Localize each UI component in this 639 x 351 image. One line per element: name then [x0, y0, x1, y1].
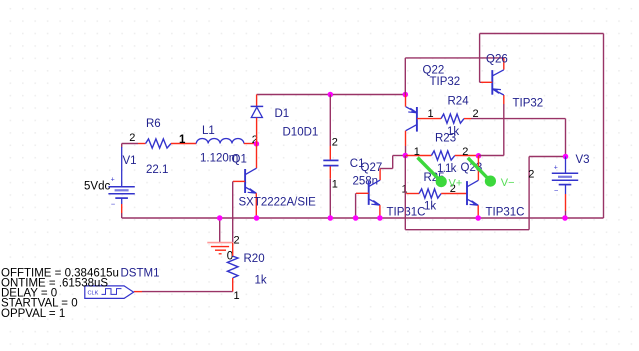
junction dot C1 top	[328, 92, 334, 98]
pin 1 of R24	[428, 108, 434, 120]
label 5Vdc	[84, 181, 110, 193]
transistor Q26 PNP	[492, 58, 504, 95]
resistor R23	[406, 151, 478, 160]
svg-text:Q1: Q1	[232, 154, 247, 166]
svg-text:1: 1	[402, 184, 408, 196]
svg-text:R23: R23	[435, 133, 456, 145]
pin 1 label (bold) between R6 and L1	[179, 134, 186, 146]
ground symbol 0	[207, 243, 233, 254]
svg-text:TIP32: TIP32	[430, 76, 461, 88]
label Q23	[461, 162, 483, 174]
pin 2 of R25	[450, 183, 456, 195]
label D1	[275, 108, 290, 120]
svg-text:Q27: Q27	[361, 162, 383, 174]
label DSTM1	[121, 268, 160, 280]
voltage source V3	[552, 157, 578, 219]
label V+	[449, 178, 463, 190]
junction dot C1 bottom	[328, 215, 334, 221]
label R6	[146, 118, 161, 130]
digital stimulus DSTM1	[85, 286, 134, 299]
svg-text:L1: L1	[202, 125, 215, 137]
junction dot Q27 emitter	[377, 215, 383, 221]
inductor L1	[196, 139, 254, 144]
wire Q22 node down	[405, 58, 504, 95]
label SXT2222A/SIE	[239, 197, 317, 209]
resistor R6	[146, 139, 197, 148]
label Q27	[361, 162, 383, 174]
svg-text:R20: R20	[244, 253, 265, 265]
svg-text:5Vdc: 5Vdc	[84, 181, 110, 193]
wire Q27 collector to node	[380, 156, 405, 169]
marker V- probe	[468, 158, 496, 187]
value 258n	[353, 176, 379, 188]
pin 2 of C1	[332, 137, 338, 149]
wire node to Q26 emitter	[479, 95, 504, 156]
svg-text:OPPVAL = 1: OPPVAL = 1	[1, 308, 65, 320]
svg-text:22.1: 22.1	[146, 164, 168, 176]
label Q22	[423, 65, 445, 77]
marker V+ probe	[418, 158, 447, 188]
wire top rail	[257, 94, 406, 96]
label V-	[501, 177, 515, 189]
capacitor C1	[323, 95, 338, 219]
label V1	[123, 155, 137, 167]
wire left loop from V1 to R6	[122, 144, 146, 148]
svg-text:Q22: Q22	[423, 65, 445, 77]
pin 2 of R24	[473, 108, 479, 120]
svg-text:1: 1	[234, 290, 240, 302]
voltage source V1 5Vdc	[108, 147, 134, 218]
value 1k of R24	[447, 126, 459, 138]
junction dot Q23 emitter	[475, 215, 481, 221]
param text OPPVAL	[1, 308, 65, 320]
svg-text:V1: V1	[123, 155, 137, 167]
label D10D1	[283, 127, 319, 139]
value 22.1	[146, 164, 168, 176]
param text ONTIME	[1, 278, 108, 290]
wire top rect	[480, 34, 604, 219]
label TIP32 of Q26	[513, 98, 544, 110]
value 1.120m	[200, 153, 238, 165]
label Q1	[232, 154, 247, 166]
label Q26	[486, 54, 508, 66]
diode D1	[251, 95, 264, 144]
transistor Q22 PNP	[406, 95, 417, 156]
pin 2 of R20	[234, 235, 240, 247]
pin 1 of R25	[402, 184, 408, 196]
wire Q26 base to top rect	[480, 34, 493, 83]
label L1	[202, 125, 215, 137]
value 1k of R25	[424, 201, 436, 213]
svg-text:1: 1	[332, 179, 338, 191]
svg-text:V+: V+	[449, 178, 463, 190]
svg-text:1: 1	[428, 108, 434, 120]
wire DSTM1 to R20	[134, 291, 233, 293]
junction dot Q22 node	[403, 92, 409, 98]
svg-text:2: 2	[332, 137, 338, 149]
svg-text:2: 2	[129, 132, 135, 144]
label R23	[435, 133, 456, 145]
svg-text:V3: V3	[576, 154, 590, 166]
svg-text:V−: V−	[501, 177, 515, 189]
pin 2 of R6	[129, 132, 135, 144]
param text DELAY	[1, 287, 57, 299]
svg-text:DSTM1: DSTM1	[121, 268, 160, 280]
svg-text:TIP31C: TIP31C	[387, 207, 426, 219]
junction dot V3 bottom	[562, 215, 568, 221]
svg-text:+: +	[111, 177, 115, 184]
wire lower loop to V3	[405, 156, 565, 230]
svg-text:1k: 1k	[255, 275, 267, 287]
value 1k of R20	[255, 275, 267, 287]
svg-text:2: 2	[462, 146, 468, 158]
svg-text:TIP31C: TIP31C	[486, 207, 525, 219]
svg-text:D1: D1	[275, 108, 290, 120]
svg-text:2: 2	[473, 108, 479, 120]
label R24	[448, 96, 470, 108]
junction dot ground	[217, 215, 223, 221]
pin 2 label of V3	[528, 169, 534, 181]
svg-text:R24: R24	[448, 96, 470, 108]
ground stub	[219, 218, 221, 242]
wire Q27 base to rail	[356, 193, 369, 218]
label R25	[424, 172, 445, 184]
param text OFFTIME	[1, 268, 119, 280]
value 1.1k of R23	[437, 163, 457, 175]
junction dot Q1 emitter	[254, 215, 260, 221]
svg-text:TIP32: TIP32	[513, 98, 544, 110]
junction dot R23 right	[476, 153, 482, 159]
svg-text:2: 2	[528, 169, 534, 181]
svg-text:258n: 258n	[353, 176, 379, 188]
junction dot R23 left	[403, 153, 409, 159]
label R20	[244, 253, 265, 265]
label C1	[350, 158, 365, 170]
label TIP31C of Q23	[486, 207, 525, 219]
wire bottom rail	[122, 217, 604, 219]
transistor Q23 NPN	[467, 156, 478, 218]
svg-text:1: 1	[414, 146, 420, 158]
pin 2 of R23	[462, 146, 468, 158]
pin 1 of C1	[332, 179, 338, 191]
svg-text:1k: 1k	[424, 201, 436, 213]
svg-text:R6: R6	[146, 118, 161, 130]
svg-text:−: −	[111, 199, 116, 208]
resistor R24	[417, 114, 566, 157]
svg-text:1: 1	[179, 134, 186, 146]
label TIP31C of Q27	[387, 207, 426, 219]
param text STARTVAL	[1, 298, 78, 310]
svg-text:2: 2	[234, 235, 240, 247]
svg-text:+: +	[554, 164, 558, 171]
wire Q1 base to R20	[233, 181, 245, 242]
svg-text:Q26: Q26	[486, 54, 508, 66]
label TIP32 of Q22	[430, 76, 461, 88]
pin 1 of R23	[414, 146, 420, 158]
resistor R25	[406, 189, 467, 198]
svg-text:CLK: CLK	[88, 291, 99, 297]
junction dot Q27 base	[353, 215, 359, 221]
transistor Q27 NPN	[369, 169, 380, 219]
svg-text:D10D1: D10D1	[283, 127, 319, 139]
ground net label 0	[227, 251, 233, 263]
junction dot V3 top	[563, 154, 569, 160]
svg-text:SXT2222A/SIE: SXT2222A/SIE	[239, 197, 317, 209]
svg-text:−: −	[554, 186, 559, 195]
pin 1 of R20	[234, 290, 240, 302]
resistor R20	[227, 243, 238, 292]
pin 2 of L1	[252, 134, 258, 146]
label V3	[576, 154, 590, 166]
transistor Q1 NPN	[245, 144, 256, 218]
node junction L1/D1/Q1	[254, 141, 260, 147]
